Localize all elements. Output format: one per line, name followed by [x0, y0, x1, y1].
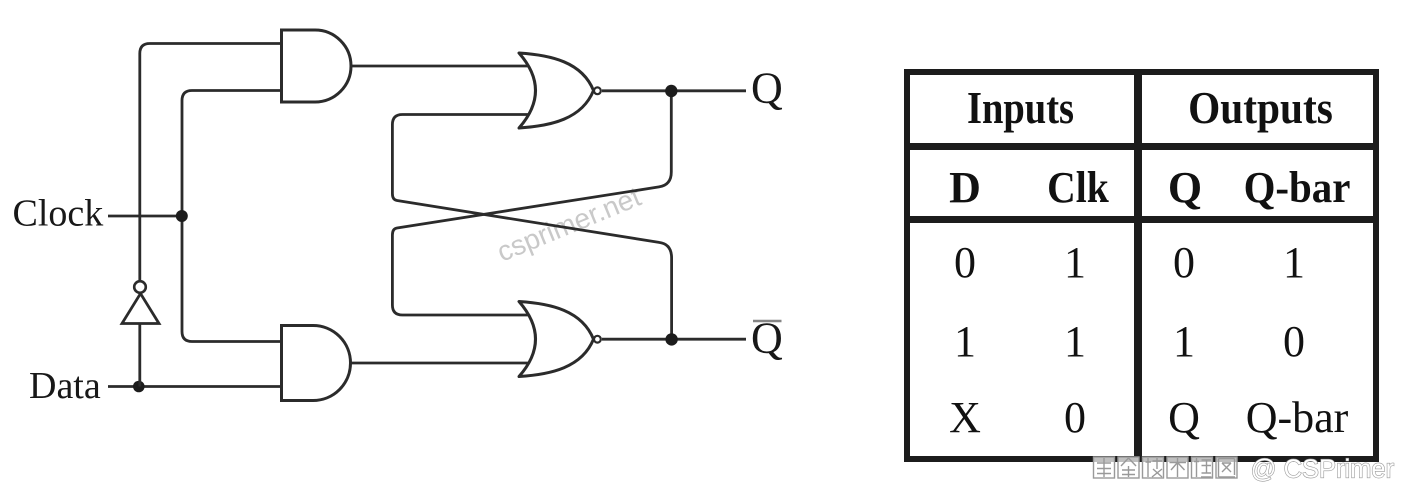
caption CJK glyph box 3 [1143, 457, 1164, 478]
table subheader Q-bar [1241, 162, 1353, 213]
svg-text:Clock: Clock [13, 193, 104, 235]
Q-bar overline [753, 320, 782, 323]
table header Outputs [1155, 81, 1366, 134]
caption CJK glyph box 6 [1216, 457, 1237, 478]
truth table header separator line 2 [904, 216, 1379, 223]
wire Data lead [108, 385, 283, 388]
wire AND U1 output to NOR U3 input [350, 65, 532, 68]
watermark csprimer.net [492, 181, 645, 268]
table header Inputs [926, 81, 1116, 134]
wire Clock to lower AND gate input [182, 216, 283, 342]
NOR gate U3 (upper) [519, 53, 594, 128]
table row 3 [905, 392, 1025, 443]
caption CJK glyph box 2 [1118, 457, 1139, 478]
wire Q feedback to NOR U4 input (cross-coupling) [392, 91, 671, 315]
truth table center divider [1134, 69, 1142, 462]
wire NOR U4 output to Q-bar [602, 338, 746, 341]
table subheader Q [1125, 162, 1245, 213]
wire AND U2 output to NOR U4 input [350, 362, 532, 365]
table subheader Clk [1024, 162, 1132, 213]
table row 2 [905, 316, 1025, 367]
table subheader D [905, 162, 1025, 213]
NOR gate U4 (lower) [519, 302, 594, 377]
NOR gate U3 output bubble [594, 87, 601, 94]
NOR gate U4 output bubble [594, 336, 601, 343]
svg-text:Data: Data [29, 365, 101, 407]
wire Clock lead [108, 215, 182, 218]
circuit schematic: D latch from AND + NOR gates [0, 0, 900, 498]
wire NOR U3 output to Q [602, 89, 746, 92]
caption CJK glyph box 4 [1167, 457, 1188, 478]
wire Q-bar feedback to NOR U3 input (cross-coupling) [392, 115, 671, 340]
svg-text:@ CSPrimer: @ CSPrimer [1251, 456, 1395, 484]
AND gate U1 (upper) [282, 30, 352, 102]
node Q junction [665, 85, 677, 97]
AND gate U2 (lower) [282, 326, 351, 401]
wire Clock to upper AND gate input [182, 91, 283, 217]
truth table header separator line 1 [904, 143, 1379, 150]
node Clock junction [176, 210, 188, 222]
inverter U5 bubble [134, 281, 146, 293]
node Q-bar junction [665, 333, 677, 345]
svg-text:Q: Q [751, 64, 783, 113]
table row 1 [905, 237, 1025, 288]
wire inverter output to upper AND gate input [140, 44, 283, 281]
node Data junction [133, 381, 145, 393]
wire Data to inverter [138, 322, 141, 387]
caption CJK glyph box 5 [1192, 457, 1213, 478]
inverter U5 triangle [122, 294, 159, 324]
caption watermark: juejin community @ CSPrimer [1082, 452, 1406, 498]
truth table outer border [904, 69, 1379, 462]
caption CJK glyph box 1 [1094, 457, 1115, 478]
